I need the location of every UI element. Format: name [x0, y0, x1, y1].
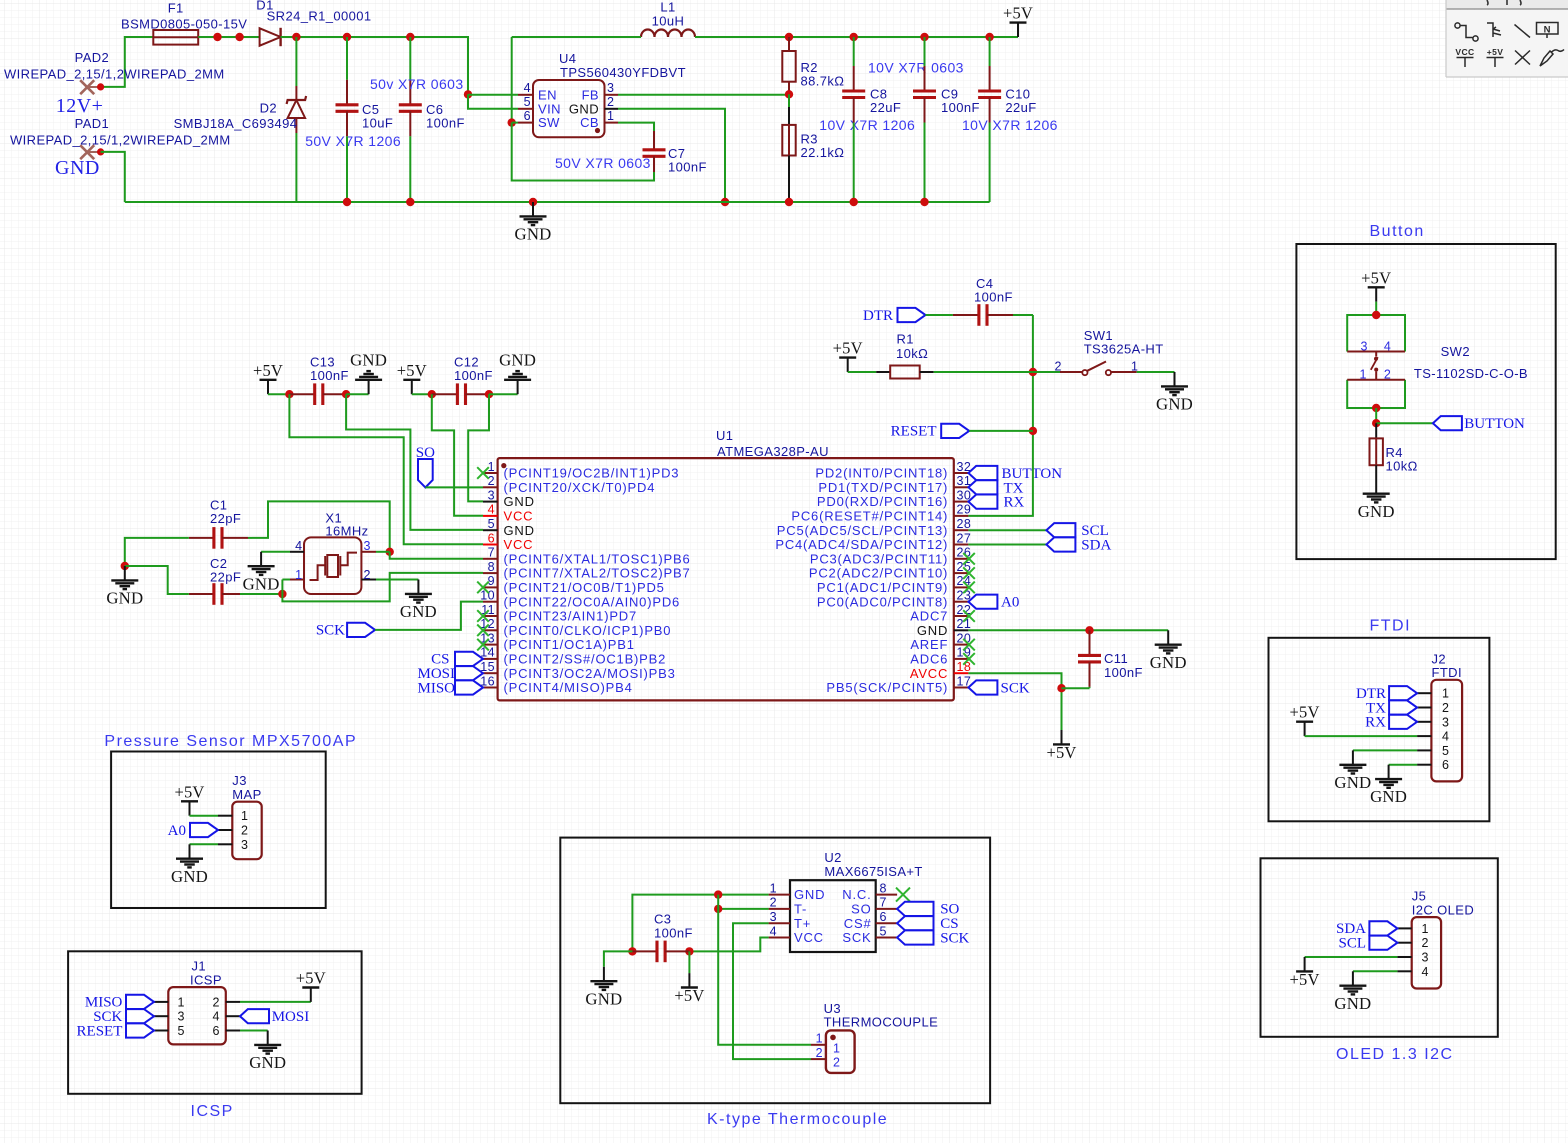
wire RESET port [969, 430, 1033, 432]
svg-text:2: 2 [1442, 701, 1449, 715]
port DTR J2 [1356, 686, 1417, 702]
svg-text:29: 29 [957, 503, 972, 517]
U2 pin 6 stub [876, 922, 897, 924]
port RESET [891, 424, 970, 440]
wire FB to divider [618, 94, 789, 96]
wire J5 pin4 [1353, 970, 1398, 972]
port SCL [1046, 523, 1108, 539]
junction [235, 33, 243, 41]
wire to pin7 [390, 552, 483, 559]
svg-text:100nF: 100nF [654, 926, 693, 941]
svg-text:K-type Thermocouple: K-type Thermocouple [707, 1111, 888, 1128]
U2 pin 2 stub [769, 908, 790, 910]
svg-text:T-: T- [794, 902, 807, 917]
svg-text:SR24_R1_00001: SR24_R1_00001 [267, 9, 372, 24]
junction U2 pin1 [714, 890, 722, 898]
svg-text:10V X7R 1206: 10V X7R 1206 [962, 117, 1058, 133]
port SCK pin17 [968, 680, 1029, 696]
svg-text:4: 4 [488, 503, 495, 517]
junction X1 pin3 [386, 548, 394, 556]
svg-text:VCC: VCC [504, 509, 534, 524]
resistor R3 [782, 125, 795, 156]
IC U4 TPS560430 [533, 80, 605, 137]
wire U4 GND down [618, 109, 725, 202]
svg-text:3: 3 [178, 1010, 185, 1024]
svg-text:4: 4 [770, 924, 777, 938]
X1 pin4 stub [290, 551, 304, 553]
+5V flag C13 [253, 361, 283, 394]
U1 pin 32 stub [954, 472, 969, 474]
U1 pin 19 stub [954, 658, 969, 660]
svg-text:ADC7: ADC7 [910, 609, 948, 624]
no-connect X pin 22 [963, 610, 975, 622]
svg-text:(PCINT23/AIN1)PD7: (PCINT23/AIN1)PD7 [504, 609, 638, 624]
junction C12 right [485, 390, 493, 398]
junction [920, 33, 928, 41]
wire T- to U3 pin1 [718, 895, 811, 1045]
toolbar icon noconnect [1515, 51, 1530, 65]
svg-text:4: 4 [524, 81, 531, 95]
svg-text:2: 2 [833, 1056, 840, 1070]
svg-text:22.1kΩ: 22.1kΩ [801, 145, 845, 160]
+5V flag SW2 [1361, 268, 1391, 301]
junction C3 right [685, 947, 693, 955]
junction [529, 198, 537, 206]
+5V flag J2 [1290, 703, 1320, 736]
svg-text:GND: GND [1334, 994, 1371, 1013]
junction SW node [508, 118, 516, 126]
port TX pin31 [968, 480, 1023, 496]
svg-text:(PCINT21/OC0B/T1)PD5: (PCINT21/OC0B/T1)PD5 [504, 580, 665, 595]
svg-text:28: 28 [957, 517, 972, 531]
toolbar icon netlabel [1537, 23, 1559, 39]
junction [920, 198, 928, 206]
capacitor C8 [842, 37, 865, 202]
ground flag J5 [1334, 971, 1371, 1013]
svg-text:2: 2 [241, 824, 248, 838]
svg-text:100nF: 100nF [454, 368, 493, 383]
svg-text:GND: GND [350, 351, 387, 370]
junction reset port [1029, 427, 1037, 435]
U1 pin 13 stub [483, 644, 498, 646]
port A0 J3 [168, 823, 218, 839]
ground flag C13 [350, 351, 387, 395]
no-connect X pin 9 [477, 582, 489, 594]
wire pin1 down [282, 573, 483, 602]
junction AVCC c11 [1057, 684, 1065, 692]
IC U1 ATMEGA328P-AU [498, 458, 954, 700]
svg-text:1: 1 [241, 809, 248, 823]
U1 pin 14 stub [483, 658, 498, 660]
no-connect X U2 pin8 [896, 888, 910, 902]
svg-text:4: 4 [1442, 730, 1449, 744]
svg-text:5: 5 [1442, 744, 1449, 758]
ground flag J2 pin5 [1334, 750, 1371, 792]
svg-text:(PCINT2/SS#/OC1B)PB2: (PCINT2/SS#/OC1B)PB2 [504, 652, 667, 667]
svg-text:SCL: SCL [1338, 936, 1366, 952]
junction pad1 [97, 148, 104, 155]
svg-text:(PCINT1/OC1A)PB1: (PCINT1/OC1A)PB1 [504, 637, 635, 652]
wire VCC U2 pin4 [689, 938, 768, 952]
svg-text:PD2(INT0/PCINT18): PD2(INT0/PCINT18) [815, 466, 948, 481]
svg-text:VCC: VCC [794, 930, 824, 945]
svg-text:TPS560430YFDBVT: TPS560430YFDBVT [560, 65, 686, 80]
svg-text:+5V: +5V [1487, 47, 1504, 57]
wire GND to pin5 [346, 394, 483, 530]
junction C13 left [285, 390, 293, 398]
X1 pin2 stub [361, 579, 376, 581]
svg-text:A0: A0 [1001, 595, 1019, 611]
U2 pin 8 stub [876, 894, 897, 896]
ground flag J3 [171, 844, 208, 886]
svg-text:(PCINT0/CLKO/ICP1)PB0: (PCINT0/CLKO/ICP1)PB0 [504, 623, 672, 638]
svg-text:D2: D2 [260, 101, 277, 116]
svg-text:GND: GND [569, 101, 599, 116]
svg-text:50v X7R 0603: 50v X7R 0603 [370, 76, 464, 92]
no-connect X pin 1 [477, 467, 489, 479]
port MOSI J1 [240, 1009, 309, 1025]
wire gnd net U2 pin1 [632, 895, 768, 952]
+5V flag AVCC [1046, 730, 1076, 762]
svg-text:PC0(ADC0/PCINT8): PC0(ADC0/PCINT8) [817, 594, 948, 609]
svg-text:2: 2 [816, 1046, 823, 1060]
U1 pin 27 stub [954, 544, 969, 546]
svg-text:CB: CB [580, 115, 599, 130]
svg-text:100nF: 100nF [974, 290, 1013, 305]
wire pin29 reset [968, 315, 1033, 516]
svg-text:EN: EN [538, 87, 557, 102]
wire SW2 to node [1375, 408, 1377, 423]
svg-text:1: 1 [1360, 368, 1367, 382]
junction SW2 top [1372, 311, 1380, 319]
svg-text:VCC: VCC [504, 537, 534, 552]
svg-text:3: 3 [770, 910, 777, 924]
wire C13 to GND [346, 393, 369, 395]
toolbar icon wire [1455, 23, 1478, 41]
U3 pin 2 stub [811, 1058, 826, 1060]
wire SCK to pin10 [375, 602, 483, 630]
U1 pin 29 stub [954, 515, 969, 517]
svg-text:2: 2 [607, 95, 614, 109]
U1 pin 15 stub [483, 672, 498, 674]
wire C2 to X1 pin1 [240, 593, 282, 595]
junction [985, 33, 993, 41]
toolbar icon VCC [1457, 58, 1474, 68]
svg-text:100nF: 100nF [668, 160, 707, 175]
svg-text:SMBJ18A_C693494: SMBJ18A_C693494 [174, 116, 298, 131]
U2 pin 3 stub [769, 922, 790, 924]
ground flag J1 [249, 1031, 286, 1073]
svg-text:THERMOCOUPLE: THERMOCOUPLE [824, 1015, 939, 1030]
capacitor C13 [289, 383, 346, 405]
port SDA [1046, 537, 1111, 553]
svg-text:(PCINT4/MISO)PB4: (PCINT4/MISO)PB4 [504, 680, 633, 695]
port A0 pin23 [968, 595, 1019, 611]
svg-text:1: 1 [607, 109, 614, 123]
svg-text:88.7kΩ: 88.7kΩ [801, 73, 845, 88]
svg-text:+5V: +5V [1003, 4, 1033, 23]
wire pin21 gnd [968, 629, 1168, 631]
svg-text:22pF: 22pF [210, 511, 241, 526]
svg-text:GND: GND [504, 523, 535, 538]
switch SW2 top half [1347, 315, 1405, 352]
junction C12 left [428, 390, 436, 398]
svg-text:PD0(RXD/PCINT16): PD0(RXD/PCINT16) [817, 494, 948, 509]
svg-text:SCK: SCK [842, 930, 871, 945]
no-connect X pin 24 [963, 582, 975, 594]
junction [292, 33, 300, 41]
U3 pin1 marker [830, 1035, 836, 1041]
wire X1 pin1 elbow [282, 579, 290, 581]
svg-text:OLED 1.3 I2C: OLED 1.3 I2C [1336, 1046, 1454, 1063]
svg-text:TS-1102SD-C-O-B: TS-1102SD-C-O-B [1414, 366, 1528, 381]
pad PAD1 GND [80, 145, 100, 159]
port CS U2 [897, 916, 958, 932]
svg-text:AVCC: AVCC [910, 666, 948, 681]
svg-text:8: 8 [880, 881, 887, 895]
svg-text:1: 1 [1442, 687, 1449, 701]
U4 pin2 GND stub [605, 108, 619, 110]
svg-text:DTR: DTR [863, 308, 893, 324]
J2 pin 1 stub [1417, 692, 1431, 694]
IC U2 MAX6675 [790, 880, 876, 952]
crystal X1 [304, 537, 361, 594]
svg-text:2: 2 [213, 995, 220, 1009]
svg-text:ADC6: ADC6 [910, 652, 948, 667]
U1 pin 11 stub [483, 615, 498, 617]
wire AVCC [968, 673, 1061, 730]
port MISO pin16 [417, 680, 483, 696]
U1 pin 1 stub [483, 472, 498, 474]
svg-text:WIREPAD_2,15/1,2WIREPAD_2MM: WIREPAD_2,15/1,2WIREPAD_2MM [10, 133, 231, 148]
section box Pressure [111, 752, 326, 909]
svg-text:PAD2: PAD2 [75, 50, 110, 65]
port RX J2 [1365, 715, 1417, 731]
U4 pin3 FB stub [605, 94, 619, 96]
svg-text:GND: GND [504, 494, 535, 509]
capacitor C10 [978, 37, 1001, 202]
port TX J2 [1366, 700, 1417, 716]
svg-text:+5V: +5V [296, 969, 326, 988]
U1 pin 5 stub [483, 529, 498, 531]
svg-text:3: 3 [1361, 340, 1368, 354]
J5 pin 3 stub [1397, 956, 1411, 958]
wire C3 to GND [604, 951, 633, 966]
wire X1 pin4 to GND [261, 551, 290, 553]
svg-text:10V X7R 0603: 10V X7R 0603 [868, 60, 964, 76]
wire top rail to SW [511, 37, 513, 123]
svg-text:MAP: MAP [232, 787, 261, 802]
svg-text:100nF: 100nF [310, 368, 349, 383]
+5V flag R1 [833, 339, 863, 372]
svg-text:6: 6 [880, 910, 887, 924]
svg-text:(PCINT19/OC2B/INT1)PD3: (PCINT19/OC2B/INT1)PD3 [504, 466, 680, 481]
U1 pin 24 stub [954, 586, 969, 588]
svg-text:J3: J3 [232, 773, 247, 788]
J1 pin 5 stub [154, 1030, 168, 1032]
junction node EN [464, 90, 472, 98]
svg-text:+5V: +5V [833, 339, 863, 358]
ground flag pin21 [1150, 630, 1187, 672]
ground flag C1C2 [106, 566, 143, 608]
switch SW2 lever [1371, 352, 1378, 380]
capacitor C7 [643, 131, 666, 172]
svg-text:Button: Button [1370, 223, 1425, 240]
U1 pin 30 stub [954, 501, 969, 503]
U1 pin 21 stub [954, 629, 969, 631]
U1 pin 22 stub [954, 615, 969, 617]
wire node to R4 [1375, 423, 1377, 438]
svg-text:6: 6 [1442, 758, 1449, 772]
wire CB to C7 [618, 123, 654, 131]
svg-text:100nF: 100nF [1104, 665, 1143, 680]
diode D1 [260, 28, 281, 46]
J1 pin 6 stub [226, 1030, 240, 1032]
junction [343, 198, 351, 206]
pad PAD2 12V+ [80, 80, 100, 94]
wire C12 to GND [489, 393, 518, 395]
svg-text:FTDI: FTDI [1432, 665, 1462, 680]
port SCL J5 [1338, 936, 1397, 952]
svg-text:N: N [1544, 24, 1551, 35]
port DTR [863, 308, 926, 324]
J1 pin 1 stub [154, 1001, 168, 1003]
svg-text:GND: GND [1150, 653, 1187, 672]
J1 pin 4 stub [226, 1015, 240, 1017]
wire R2 R3 mid [788, 94, 790, 107]
wire X1 pin2 to GND [376, 579, 418, 581]
svg-text:+5V: +5V [174, 782, 204, 801]
port BUTTON [1433, 416, 1525, 432]
svg-text:1: 1 [816, 1032, 823, 1046]
+5V flag J3 [174, 782, 204, 815]
svg-text:1: 1 [1422, 922, 1429, 936]
svg-text:3: 3 [364, 539, 371, 553]
toolbar panel [1446, 0, 1568, 9]
wire 12V+ pad to fuse [101, 37, 154, 87]
capacitor C2 [189, 583, 240, 605]
ground flag J2 pin6 [1370, 765, 1407, 807]
diode D2 TVS [287, 37, 307, 202]
+5V flag C3 [674, 973, 704, 1005]
svg-text:PAD1: PAD1 [75, 116, 110, 131]
svg-text:1: 1 [295, 568, 302, 582]
section box FTDI [1269, 638, 1490, 822]
switch SW1 [1033, 362, 1137, 376]
svg-text:16MHz: 16MHz [325, 524, 368, 539]
svg-text:4: 4 [1422, 965, 1429, 979]
wire GND to pin3 [468, 394, 489, 501]
svg-text:5: 5 [524, 95, 531, 109]
svg-text:18: 18 [957, 660, 972, 674]
wire L1 to +5V [695, 36, 1018, 38]
U1 pin 10 stub [483, 601, 498, 603]
svg-text:PC3(ADC3/PCINT11): PC3(ADC3/PCINT11) [810, 551, 948, 566]
wire pad1 to rail [101, 152, 125, 202]
port SO U2 [897, 902, 959, 918]
+5V flag J1 [296, 969, 326, 1002]
svg-text:2: 2 [1422, 936, 1429, 950]
svg-text:+5V: +5V [674, 986, 704, 1005]
svg-text:SO: SO [416, 445, 435, 461]
wire R3 to rail [788, 156, 790, 203]
junction [850, 33, 858, 41]
svg-text:10uF: 10uF [362, 116, 393, 131]
junction button node [1372, 419, 1380, 427]
wire C3 to +5V [688, 951, 690, 973]
svg-text:+5V: +5V [1361, 268, 1391, 287]
svg-text:RX: RX [1004, 495, 1025, 511]
svg-text:Pressure Sensor MPX5700AP: Pressure Sensor MPX5700AP [104, 733, 357, 750]
U1 pin 6 stub [483, 544, 498, 546]
wire +5V to C12 [412, 393, 432, 395]
wire SO to pin2 [425, 486, 483, 488]
toolbar icon pen [1540, 50, 1564, 67]
wire J5 pin3 [1305, 956, 1398, 958]
svg-text:GND: GND [55, 157, 100, 179]
switch SW2 bottom half [1347, 380, 1405, 408]
junction [721, 198, 729, 206]
svg-text:MAX6675ISA+T: MAX6675ISA+T [824, 864, 922, 879]
svg-text:4: 4 [295, 539, 302, 553]
capacitor C3 [632, 941, 689, 963]
J2 pin 6 stub [1417, 764, 1431, 766]
section box Ktype [560, 838, 990, 1104]
junction C gnd [121, 562, 129, 570]
wire R4 to GND [1375, 465, 1377, 493]
port RESET J1 [77, 1023, 154, 1039]
U1 pin 3 stub [483, 501, 498, 503]
svg-text:(PCINT20/XCK/T0)PD4: (PCINT20/XCK/T0)PD4 [504, 480, 656, 495]
svg-text:GND: GND [515, 225, 552, 244]
wire J2 pin4 [1305, 735, 1418, 737]
svg-text:6: 6 [488, 531, 495, 545]
U1 pin 18 stub [954, 672, 969, 674]
svg-text:+5V: +5V [1290, 970, 1320, 989]
port SDA J5 [1336, 921, 1397, 937]
U1 pin 26 stub [954, 558, 969, 560]
connector J1 [168, 987, 226, 1044]
capacitor C12 [432, 383, 489, 405]
+5V flag C12 [397, 361, 427, 394]
svg-text:L1: L1 [660, 0, 675, 15]
U1 pin 9 stub [483, 586, 498, 588]
wire J2 pin5 [1353, 749, 1417, 751]
svg-text:GND: GND [499, 351, 536, 370]
no-connect X pin 13 [477, 639, 489, 651]
wire C11 bottom [1062, 687, 1090, 689]
svg-text:2: 2 [1055, 360, 1062, 374]
svg-text:RESET: RESET [77, 1023, 123, 1039]
junction C11 top [1085, 626, 1093, 634]
svg-text:GND: GND [585, 989, 622, 1008]
svg-text:(PCINT22/OC0A/AIN0)PD6: (PCINT22/OC0A/AIN0)PD6 [504, 594, 681, 609]
connector J2 [1431, 680, 1462, 782]
wire C1 left [125, 538, 189, 566]
wire J1 pin2 +5V [240, 1001, 311, 1003]
svg-text:(PCINT7/XTAL2/TOSC2)PB7: (PCINT7/XTAL2/TOSC2)PB7 [504, 566, 691, 581]
J5 pin 4 stub [1397, 970, 1411, 972]
junction SW2 bottom [1372, 404, 1380, 412]
svg-text:R1: R1 [897, 332, 914, 347]
wire +5V to C13 [268, 393, 289, 395]
resistor R2 [782, 37, 795, 94]
svg-text:TS3625A-HT: TS3625A-HT [1084, 342, 1164, 357]
svg-text:9: 9 [488, 574, 495, 588]
wire +5V to VCC pin6 [289, 394, 483, 544]
wire J1 pin6 [240, 1030, 268, 1032]
J3 pin 3 stub [218, 843, 232, 845]
